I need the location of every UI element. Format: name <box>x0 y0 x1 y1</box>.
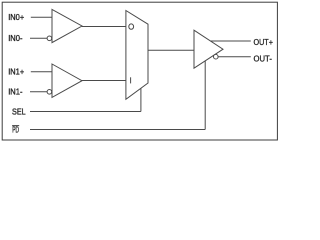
bubble on buffer B inverting input <box>47 90 52 95</box>
wire SEL horizontal run <box>30 111 141 113</box>
wire PD vertical run up to output amp <box>204 61 206 130</box>
mux (2:1 multiplexer) <box>126 11 148 100</box>
wire buffer B output to mux input 1 <box>82 80 126 82</box>
wire IN0- to buffer A inverting bubble <box>30 37 47 39</box>
svg-text:IN1+: IN1+ <box>8 67 24 77</box>
bubble on buffer A inverting input <box>47 36 52 41</box>
wire SEL vertical run up to mux select pin <box>140 88 142 112</box>
svg-text:OUT-: OUT- <box>254 54 273 64</box>
wire mux output to output amp input <box>148 49 194 51</box>
svg-text:OUT+: OUT+ <box>254 37 274 47</box>
wire IN0+ to buffer A noninverting input <box>31 16 52 18</box>
wire OUT- from amp inverting bubble <box>218 56 251 58</box>
buffer amp A (input IN0) <box>47 9 82 42</box>
wire IN1+ to buffer B noninverting input <box>31 71 52 73</box>
wire IN1- to buffer B inverting bubble <box>30 91 47 93</box>
svg-text:SEL: SEL <box>12 106 26 116</box>
bubble on OUT- output <box>214 54 219 59</box>
border frame (decorative) <box>2 2 277 140</box>
mux pin label 1 <box>130 77 132 83</box>
svg-text:IN0+: IN0+ <box>8 12 24 22</box>
mux pin label 0 <box>129 24 134 29</box>
wire OUT+ from amp upper edge <box>211 40 251 42</box>
svg-text:IN1-: IN1- <box>8 87 23 97</box>
overline for PD <box>12 125 19 127</box>
wire PD horizontal run <box>30 129 205 131</box>
buffer amp B (input IN1) <box>47 64 82 97</box>
svg-text:IN0-: IN0- <box>8 33 23 43</box>
output amp (differential) <box>194 30 223 68</box>
wire buffer A output to mux input 0 <box>82 26 126 28</box>
